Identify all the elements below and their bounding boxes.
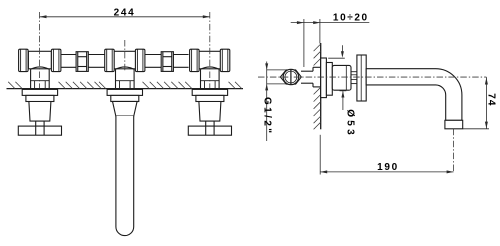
wire manifold pipe bottom [61,66,189,68]
wall line front view [7,88,244,90]
centerline spout outlet [453,129,455,172]
wire manifold pipe top [61,54,189,56]
centerline side view [258,76,486,78]
union coupling right [161,52,173,72]
spout tube front view [107,89,142,235]
hex nut center-right [135,49,145,71]
tee body valve right [198,51,221,88]
dimension G1/2 [265,62,286,142]
flange disc [357,55,366,101]
hex nut right-inner [190,49,200,71]
svg-text:Ø53: Ø53 [345,109,356,138]
threaded nipple [351,72,357,84]
hex nut left-inner [51,49,61,71]
tee body valve left [28,51,51,88]
hex nut left-outer [19,49,29,71]
union coupling left [76,52,88,72]
concealed body in wall [313,67,321,87]
centerline right valve [209,12,211,88]
centerline left valve [39,12,41,88]
svg-text:190: 190 [377,162,399,173]
wall hatching front view [8,82,242,89]
wire inlet pipe side view [301,71,313,83]
hex nut center-left [105,49,115,71]
centerline center spout [124,40,126,71]
dimension diameter 53 [328,45,346,110]
dimension 74 [463,77,489,129]
spout tube side view [366,69,462,121]
svg-text:74: 74 [486,93,497,106]
hex nut right-outer [220,49,230,71]
tee body spout center [113,51,136,88]
cross handle left below wall [18,89,61,135]
dimension 190 [320,135,453,175]
svg-text:244: 244 [114,8,136,19]
escutcheon plate outer [321,58,327,98]
valve body side view [332,65,351,90]
wall line and hatching side view [314,43,321,129]
svg-text:10÷20: 10÷20 [333,12,369,23]
cross handle right below wall [188,89,231,135]
spout outlet [445,120,463,129]
hex fitting G1/2 [280,69,301,84]
wire dimension 244 line [40,15,210,18]
svg-text:G1/2": G1/2" [261,97,272,135]
dimension 10-20 [291,19,370,67]
escutcheon plate inner [326,63,332,96]
